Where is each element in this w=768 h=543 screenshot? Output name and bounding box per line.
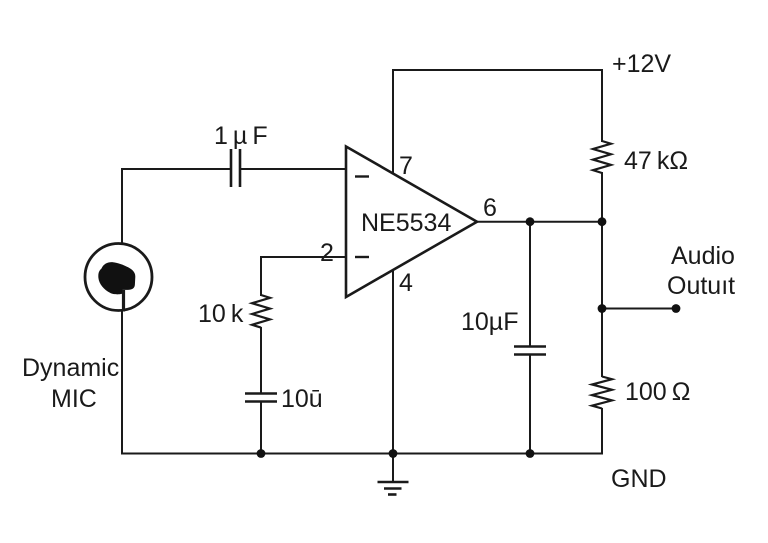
svg-text:10ū: 10ū [281,385,323,413]
op-amp U1 NE5534 triangle [346,147,477,298]
svg-text:MIC: MIC [51,385,97,413]
svg-text:47 kΩ: 47 kΩ [624,147,688,175]
wire C3 to bottom rail [529,355,531,455]
wire top rail to +12V [392,69,603,71]
node dot output-C3 [526,217,535,226]
mic M1 dynamic microphone [85,244,152,312]
op-amp minus top [355,175,369,177]
resistor R2 100 ohm zigzag [592,377,612,409]
svg-text:NE5534: NE5534 [361,209,451,237]
wire rail to R2 [601,308,603,377]
wire audio tap [602,308,676,310]
node dot output-rail [598,217,607,226]
svg-text:GND: GND [611,465,667,493]
capacitor C2 10u plates [245,394,277,402]
wire R3 to C2 [260,327,262,394]
wire pin2 horizontal [260,256,346,258]
ground stem [392,453,394,482]
wire mic top vertical [121,170,123,243]
wire pin7 vertical [392,71,394,174]
wire mic to C1 [121,168,231,170]
wire right rail to audio tap [601,221,603,309]
resistor R1 47k zigzag [593,141,611,173]
svg-text:10 k: 10 k [198,300,244,328]
svg-text:1 µ F: 1 µ F [214,122,268,150]
svg-text:2: 2 [320,239,334,267]
svg-text:6: 6 [483,194,497,222]
node dot audio tap rail [598,304,607,313]
capacitor C3 10uF plates [514,347,546,355]
wire output node down to C3 [529,221,531,346]
wire R1 to output node [601,172,603,222]
wire C2 to bottom rail [260,402,262,455]
wire R2 to bottom rail [601,408,603,455]
svg-text:Dynamic: Dynamic [22,354,119,382]
node dot bottom C2 [257,449,266,458]
resistor R3 10k zigzag [252,295,270,328]
wire pin2 down to R3 [260,256,262,296]
svg-text:+12V: +12V [612,50,671,78]
node dot bottom ground [389,449,398,458]
wire pin4 vertical [392,270,394,454]
capacitor C1 1uF plates [231,149,240,187]
wire output pin6 [477,221,602,223]
svg-text:Outuıt: Outuıt [667,272,735,300]
node dot bottom C3 [526,449,535,458]
svg-text:100 Ω: 100 Ω [625,378,690,406]
svg-text:7: 7 [399,152,413,180]
node dot audio terminal [672,304,681,313]
op-amp minus bottom [355,256,369,258]
svg-text:Audio: Audio [671,242,735,270]
ground bars [378,482,409,495]
wire C1 to op-amp [240,168,346,170]
svg-text:4: 4 [399,269,413,297]
wire bottom rail [121,453,603,455]
wire rail down to R1 [601,69,603,142]
wire mic bottom vertical [121,311,123,455]
svg-text:10µF: 10µF [461,308,518,336]
